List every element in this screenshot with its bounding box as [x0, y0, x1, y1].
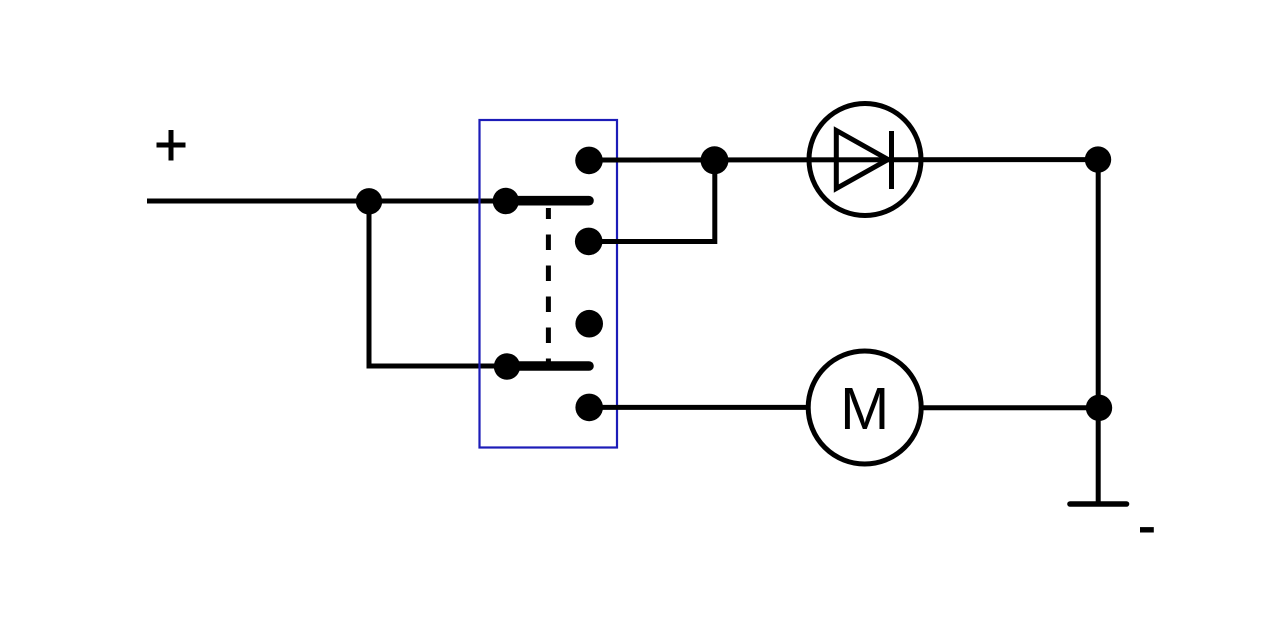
switch S1 contact 1 terminal: [575, 147, 603, 175]
switch S1 contact 4 terminal: [575, 394, 603, 422]
switch S1 pole 2 terminal: [494, 353, 520, 379]
switch S1 contact 3 terminal: [575, 310, 603, 338]
switch S1 pole 1 lever: [506, 196, 589, 206]
switch S1 contact 2 terminal: [575, 228, 603, 256]
switch S1 enclosure (blue box): [480, 120, 618, 448]
diode D1 triangle (anode): [836, 131, 888, 189]
motor M1 circle: [808, 351, 921, 464]
switch S1 pole 2 lever: [507, 361, 589, 371]
node C (diode to rail): [1085, 146, 1111, 172]
wire from + supply to switch pole 1: [147, 199, 506, 204]
wire motor to right rail: [921, 405, 1099, 410]
wire junction A down to switch pole 2: [369, 201, 507, 366]
diode D1 cathode bar: [889, 131, 894, 189]
right rail wire (vertical): [1096, 160, 1101, 504]
node B (junction above contact 2): [701, 146, 729, 174]
wire contact 4 to motor: [589, 405, 809, 410]
switch S1 mechanical link (dashed): [546, 208, 551, 364]
wire contact 1 to diode row: [589, 157, 1098, 162]
node D (motor to rail): [1086, 395, 1112, 421]
switch S1 pole 1 terminal: [493, 188, 519, 214]
diode D1 circle: [809, 104, 921, 216]
node A (junction on + wire): [356, 188, 382, 214]
wire node B down to contact 2: [589, 160, 715, 242]
node + (positive supply label): [157, 130, 186, 161]
ground bar: [1070, 501, 1127, 507]
node - (negative supply label): [1140, 527, 1154, 532]
svg-text:M: M: [840, 376, 889, 442]
